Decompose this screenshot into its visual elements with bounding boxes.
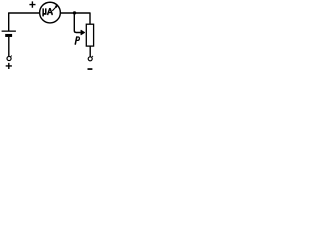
meter label uA [42,8,46,16]
background [0,0,104,74]
wire: battery to left terminal [8,37,10,56]
wire: branch down from junction, arrow toward resistor (actuation P) [74,13,80,33]
label P [75,37,77,45]
terminal right (open circle) [88,57,92,61]
meter needle arrow [52,6,56,11]
wire: left vertical + top horizontal to meter [9,13,40,31]
resistor R1 (sensing element) [86,24,93,46]
terminal left (open circle) [7,56,11,60]
plus sign at meter + terminal [29,1,35,7]
junction node dot [73,11,76,14]
op meter U1: microammeter circle [40,2,61,23]
plus label at left terminal [6,63,12,69]
wire: meter right to resistor top [61,13,90,24]
battery B1 long plate (+) [2,30,16,32]
battery B1 short thick plate (-) [5,34,12,37]
wire: resistor bottom to right terminal [89,46,91,56]
minus label at right terminal [88,68,93,70]
